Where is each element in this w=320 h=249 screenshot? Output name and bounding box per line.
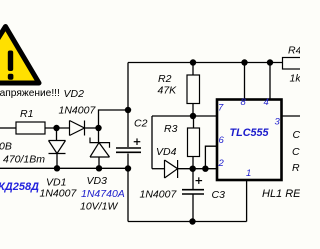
svg-text:470/1Вт: 470/1Вт xyxy=(3,154,45,166)
svg-text:R1: R1 xyxy=(20,108,33,120)
svg-text:1N4007: 1N4007 xyxy=(59,105,97,117)
svg-text:R3: R3 xyxy=(164,123,178,135)
svg-text:R4: R4 xyxy=(288,45,300,57)
svg-text:3: 3 xyxy=(275,117,281,128)
svg-text:1k: 1k xyxy=(290,73,301,85)
svg-text:VD4: VD4 xyxy=(156,146,177,158)
svg-text:8: 8 xyxy=(241,97,247,108)
svg-text:6: 6 xyxy=(219,135,225,146)
svg-text:C3: C3 xyxy=(212,189,226,201)
svg-text:0В: 0В xyxy=(0,141,12,153)
svg-text:R: R xyxy=(292,162,300,174)
svg-text:7: 7 xyxy=(218,103,224,114)
svg-text:2: 2 xyxy=(218,158,225,169)
svg-text:C: C xyxy=(293,129,301,141)
svg-text:4: 4 xyxy=(264,97,269,108)
svg-text:10V/1W: 10V/1W xyxy=(80,201,118,213)
svg-text:47K: 47K xyxy=(158,85,178,97)
svg-text:R2: R2 xyxy=(158,73,172,85)
svg-text:VD3: VD3 xyxy=(87,175,108,187)
svg-text:C2: C2 xyxy=(134,118,148,130)
svg-text:1: 1 xyxy=(246,168,251,179)
svg-text:TLC555: TLC555 xyxy=(230,127,270,139)
svg-text:КД258Д: КД258Д xyxy=(0,181,39,193)
svg-text:1N4740A: 1N4740A xyxy=(81,188,125,200)
svg-text:1N4007: 1N4007 xyxy=(140,189,178,201)
svg-text:VD2: VD2 xyxy=(64,88,85,100)
svg-text:HL1 RE: HL1 RE xyxy=(262,188,300,200)
svg-text:1N4007: 1N4007 xyxy=(40,188,78,200)
svg-text:напряжение!!!: напряжение!!! xyxy=(0,88,60,99)
svg-text:C: C xyxy=(292,146,300,158)
